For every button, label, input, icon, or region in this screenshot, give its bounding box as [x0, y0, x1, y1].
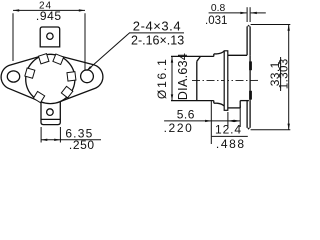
dimension 6.35 / .250 (terminal width): [41, 126, 101, 152]
side view centerline: [192, 79, 258, 81]
dimension 24 / .945 (mounting hole spacing): [13, 1, 85, 71]
dimension dia 16.1 / DIA .634 (cap diameter): [155, 53, 190, 101]
bottom terminal blade (side view): [247, 101, 250, 130]
flange outline (front view): [1, 54, 103, 103]
svg-text:DIA.634: DIA.634: [176, 53, 190, 100]
svg-text:2-4×3.4: 2-4×3.4: [133, 19, 181, 34]
dimension 0.8 / .031 (terminal thickness): [205, 3, 266, 27]
dimension 12.4 / .488: [212, 106, 248, 152]
dimension 5.6 / .220: [164, 101, 241, 144]
svg-text:0.8: 0.8: [211, 3, 226, 14]
dimension 33.1 / 1.303 (overall height): [251, 25, 291, 130]
left mounting hole: [7, 71, 19, 82]
thermostat cap circle (front view): [26, 54, 75, 103]
svg-text:2-.16×.13: 2-.16×.13: [131, 33, 184, 47]
side view bakelite body: [228, 55, 250, 108]
side view mounting flange plate: [224, 51, 228, 111]
bottom terminal hole: [47, 109, 54, 116]
top terminal blade (side view): [247, 25, 250, 56]
hole callout note 2-4x3.4 / 2-.16x.13 with leader: [86, 19, 184, 71]
svg-text:12.4: 12.4: [215, 122, 242, 136]
svg-text:.488: .488: [216, 137, 246, 151]
svg-text:.031: .031: [205, 15, 227, 27]
svg-text:5.6: 5.6: [177, 108, 195, 122]
svg-text:1.303: 1.303: [279, 58, 291, 89]
crimp tabs on cap rim: [25, 54, 76, 103]
right mounting hole: [81, 70, 94, 83]
terminal rivet bosses on body back face: [249, 61, 252, 70]
svg-text:.220: .220: [164, 121, 194, 135]
top terminal hole: [47, 33, 53, 39]
svg-text:.945: .945: [36, 9, 62, 23]
svg-text:Ø16.1: Ø16.1: [155, 57, 169, 99]
top terminal blade (front view): [40, 27, 60, 47]
bottom terminal blade (front view): [41, 100, 60, 125]
bottom terminal crimp line: [41, 118, 60, 120]
svg-text:.250: .250: [69, 138, 95, 152]
side view cap profile: [171, 51, 224, 106]
